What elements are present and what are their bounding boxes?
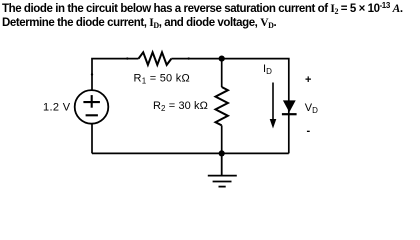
wire middle branch bottom stub	[221, 125, 223, 153]
svg-text:1.2 V: 1.2 V	[43, 101, 71, 113]
current arrow ID head	[270, 119, 277, 129]
connector dot source top	[91, 73, 93, 75]
voltage source plus sign	[83, 95, 100, 115]
connector dot right	[188, 57, 190, 59]
problem statement text	[2, 2, 420, 30]
diode D1 cathode bar	[282, 113, 297, 115]
resistor R2	[216, 87, 228, 125]
node junction bottom	[219, 150, 225, 156]
wire bottom	[92, 152, 289, 154]
svg-text:VD: VD	[305, 102, 318, 115]
wire middle branch top stub	[221, 59, 223, 87]
wire top-right segment	[171, 59, 288, 154]
svg-text:-: -	[307, 125, 311, 137]
svg-text:R2 = 30 kΩ: R2 = 30 kΩ	[153, 100, 208, 113]
diode D1 triangle	[283, 100, 296, 112]
node junction top	[219, 56, 225, 62]
wire top-left segment	[92, 59, 139, 91]
wire left-bottom segment	[91, 124, 93, 154]
ground	[208, 153, 237, 186]
connector dot left	[126, 57, 128, 59]
svg-text:ID: ID	[263, 63, 272, 76]
voltage source V1 circle	[75, 90, 109, 124]
resistor R1	[139, 52, 172, 65]
svg-text:+: +	[305, 74, 311, 86]
current arrow ID	[272, 83, 274, 121]
voltage source minus sign	[86, 114, 98, 116]
svg-text:R1 = 50 kΩ: R1 = 50 kΩ	[134, 73, 190, 86]
